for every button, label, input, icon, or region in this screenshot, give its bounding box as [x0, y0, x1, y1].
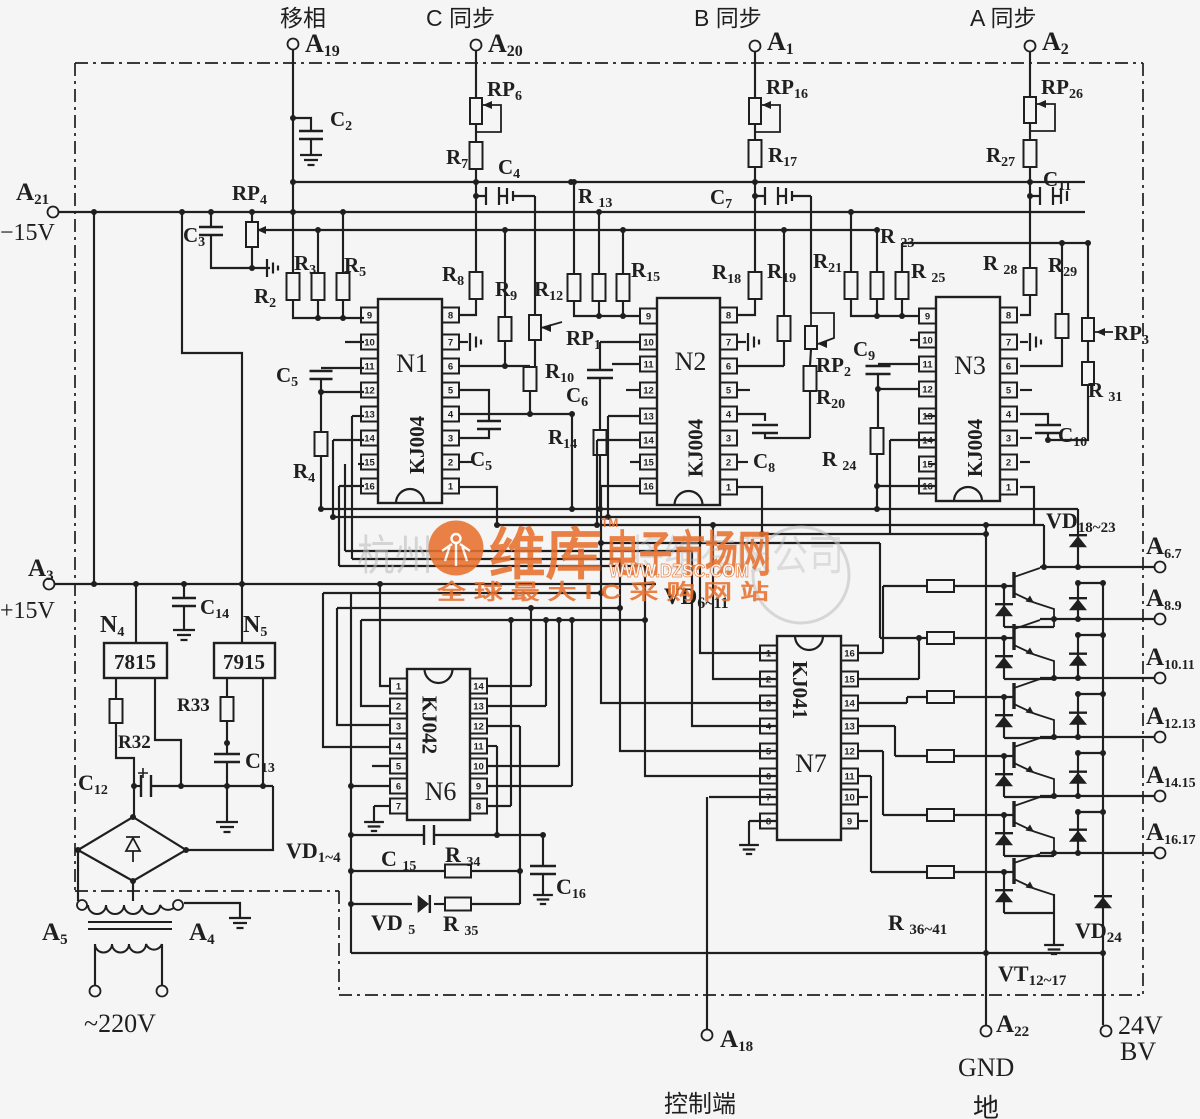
junction	[874, 506, 880, 512]
svg-text:1: 1	[726, 483, 732, 494]
regulator N4 (7815)	[104, 643, 167, 678]
wire bus to R29/RP3	[902, 242, 1088, 244]
wire N2 pin15 stub	[630, 461, 639, 463]
svg-text:11: 11	[473, 742, 484, 753]
svg-text:1: 1	[766, 649, 772, 660]
diode VD19	[1069, 599, 1087, 610]
capacitor C6	[587, 370, 613, 378]
svg-text:C 同步: C 同步	[426, 5, 495, 31]
junction	[1075, 750, 1081, 756]
capacitor C16	[530, 866, 556, 874]
svg-text:5: 5	[726, 386, 732, 397]
junction	[508, 617, 514, 623]
junction	[605, 514, 611, 520]
junction	[1001, 869, 1007, 875]
junction	[249, 209, 255, 215]
wire A3 to 7815	[135, 584, 137, 643]
wire nest bus L9	[323, 592, 601, 594]
resistor R20	[804, 366, 817, 391]
wire output row to A6.7	[1040, 566, 1154, 568]
wire N7 pin10 stub	[859, 796, 868, 798]
wire nest bus L7	[352, 558, 620, 560]
wire output row to A12.13	[1040, 736, 1154, 738]
junction	[75, 847, 81, 853]
wire R5 top	[342, 212, 344, 273]
resistor R27	[1024, 140, 1037, 167]
label C12 polarity	[138, 768, 148, 778]
wire N1 pin7 to ground	[460, 341, 468, 343]
wire top bus 1	[293, 181, 1085, 183]
svg-text:4: 4	[1006, 410, 1012, 421]
transistor VT16	[1012, 801, 1015, 827]
ground at N2 pin7	[748, 333, 759, 351]
wire nest bus L3	[497, 524, 1044, 526]
wire RP1 to R10	[534, 340, 536, 367]
wire R40 to transistor VT16	[954, 814, 1014, 816]
capacitor C3	[199, 227, 223, 235]
svg-text:控制端: 控制端	[664, 1091, 736, 1118]
junction	[874, 483, 880, 489]
junction	[290, 209, 296, 215]
junction	[91, 581, 97, 587]
terminal A19	[288, 39, 299, 50]
junction	[178, 783, 184, 789]
junction	[1075, 793, 1081, 799]
junction	[848, 209, 854, 215]
svg-text:8: 8	[476, 802, 481, 813]
junction	[91, 209, 97, 215]
wire N1 pin13	[352, 415, 364, 417]
junction	[527, 411, 533, 417]
svg-text:−15V: −15V	[0, 220, 56, 246]
transformer T secondary winding	[95, 944, 162, 953]
junction	[1027, 179, 1033, 185]
junction	[224, 783, 230, 789]
wire R34 bus left	[351, 870, 445, 872]
wire N7 pin15 to base row 2	[918, 638, 920, 679]
terminal A5 ring	[77, 900, 87, 910]
svg-text:6: 6	[448, 362, 453, 373]
terminal A18	[702, 1030, 713, 1041]
wire nest bus L11	[361, 619, 645, 621]
junction	[315, 315, 321, 321]
capacitor C5	[310, 371, 333, 379]
terminal A2	[1025, 41, 1036, 52]
wire to C6	[599, 342, 601, 370]
svg-text:13: 13	[473, 702, 484, 713]
svg-text:14: 14	[643, 436, 654, 447]
wire N6 pin6	[351, 785, 389, 787]
wire R23 top	[876, 230, 878, 272]
junction	[752, 179, 758, 185]
resistor R41	[927, 866, 954, 878]
svg-text:3: 3	[1006, 434, 1011, 445]
wire base feed row 4	[895, 755, 927, 757]
wire VD9 to emitter rail	[1004, 796, 1054, 798]
junction	[597, 506, 603, 512]
resistor RP1	[529, 315, 541, 340]
svg-text:7: 7	[726, 338, 731, 349]
transformer core	[88, 922, 172, 929]
wire nest to N7 pin2	[713, 525, 777, 679]
resistor R40	[927, 809, 954, 821]
svg-text:杭州: 杭州	[357, 532, 433, 579]
terminal A6.7	[1155, 562, 1166, 573]
svg-text:4: 4	[726, 410, 732, 421]
wire nest drop to output row 1	[1043, 525, 1045, 567]
wire VD22 branch	[1077, 753, 1079, 796]
wire	[317, 300, 319, 318]
wire C16 to ground	[542, 874, 544, 895]
op-amp N1 (KJ004)	[378, 299, 442, 503]
resistor RP16	[749, 98, 761, 124]
svg-text:BV: BV	[1120, 1037, 1156, 1066]
wire N2 pin12 stub	[626, 389, 639, 391]
wire N2 pin5 stub	[738, 389, 750, 391]
resistor RP6	[470, 98, 482, 124]
wire N1 pin6	[460, 365, 505, 367]
svg-text:11: 11	[364, 362, 375, 373]
wire to C2	[293, 118, 311, 131]
junction	[315, 227, 321, 233]
junction	[348, 832, 354, 838]
wire base feed row 6	[871, 871, 927, 873]
resistor R17	[749, 140, 762, 167]
wire +15V to N6 pin1	[380, 584, 389, 686]
junction	[540, 832, 546, 838]
svg-text:13: 13	[643, 412, 654, 423]
junction	[568, 179, 574, 185]
diode VD23	[1069, 831, 1087, 842]
junction	[494, 832, 500, 838]
svg-text:KJ004: KJ004	[405, 415, 429, 474]
wire	[342, 300, 344, 318]
terminal A14.15	[1155, 791, 1166, 802]
wire RP3 to R31	[1087, 341, 1089, 362]
junction	[1051, 734, 1057, 740]
wire N6 pin14	[487, 685, 531, 687]
ground at output stage	[1044, 945, 1064, 954]
wire R21/R23/R25 bottoms to N3 pin9	[851, 299, 920, 316]
wire N7 pin15	[859, 678, 919, 680]
wire R12/R13/R15 bottoms to N2 pin9	[574, 301, 639, 316]
wire output row to A14.15	[1040, 795, 1154, 797]
wire N7 pin8 to ground	[748, 821, 750, 845]
wire base feed row 2	[880, 637, 927, 639]
capacitor C15	[424, 825, 434, 845]
wire R12 top	[573, 182, 575, 274]
junction	[1051, 793, 1057, 799]
wire C15 bus left	[351, 834, 424, 836]
diode VD10	[995, 834, 1013, 845]
wire output row to A16.17	[1040, 852, 1154, 854]
diode VD22	[1069, 773, 1087, 784]
wire nest to N6 pin3	[337, 608, 389, 725]
wire N7 pin11	[859, 775, 871, 777]
wire nest bus L4	[762, 533, 986, 535]
border frame (dash-dot)	[75, 63, 1143, 995]
junction	[348, 901, 354, 907]
wire C15 bus right	[434, 834, 543, 836]
junction	[1045, 437, 1051, 443]
junction	[348, 868, 354, 874]
wire VD5 to R35	[434, 903, 445, 905]
svg-text:8: 8	[448, 311, 453, 322]
wire diode VD7 branch	[1003, 638, 1005, 679]
wire VD6 to emitter rail	[1004, 626, 1054, 628]
wire N6 pin7	[374, 805, 389, 807]
bridge rectifier VD1~4	[78, 817, 186, 881]
wire R28 to N3 pin8	[1020, 295, 1030, 315]
wire bus to bridge top	[133, 786, 135, 817]
junction	[1001, 753, 1007, 759]
resistor R12	[568, 274, 581, 301]
svg-text:10: 10	[364, 338, 375, 349]
wire	[1029, 167, 1031, 268]
svg-text:~220V: ~220V	[84, 1009, 156, 1038]
wire to nest	[600, 486, 602, 557]
resistor R37	[927, 632, 954, 644]
terminal A22	[981, 1026, 992, 1037]
wire N3 pin16	[877, 485, 936, 487]
junction	[1085, 240, 1091, 246]
resistor R25	[896, 272, 909, 299]
junction	[642, 617, 648, 623]
capacitor C11	[1031, 187, 1067, 205]
wire N1 pin10	[345, 341, 364, 343]
junction	[1100, 691, 1106, 697]
wire VD10 to emitter rail	[1004, 855, 1054, 857]
svg-text:N7: N7	[795, 749, 827, 778]
wire R25 top	[901, 243, 903, 272]
wire nest drop to base row 2	[879, 543, 881, 638]
resistor RP4	[246, 222, 258, 247]
svg-text:7: 7	[396, 802, 401, 813]
junction	[1051, 675, 1057, 681]
svg-text:9: 9	[476, 782, 481, 793]
junction	[1075, 675, 1081, 681]
wire clamp to 24V rail	[1078, 752, 1103, 754]
wire	[754, 124, 756, 140]
wire top bus 2 (from RP4 wiper)	[257, 229, 877, 231]
regulator N5 (7915)	[214, 643, 275, 678]
wire to ground	[226, 786, 228, 822]
svg-text:全 球 最 大 I C 采 购 网 站: 全 球 最 大 I C 采 购 网 站	[436, 580, 769, 604]
svg-text:6: 6	[1006, 362, 1011, 373]
svg-text:10: 10	[473, 762, 484, 773]
wire N1 pin11 to C5	[321, 367, 364, 369]
wire C2 to ground	[310, 139, 312, 155]
wire +15V bus	[55, 583, 656, 585]
capacitor C10	[1035, 425, 1061, 433]
wire diode VD6 branch	[1003, 586, 1005, 627]
diode VD6	[995, 605, 1013, 616]
junction	[340, 315, 346, 321]
wire secondary right leg	[161, 944, 163, 986]
junction	[330, 514, 336, 520]
resistor R29	[1056, 314, 1069, 338]
svg-text:KJ004: KJ004	[684, 418, 708, 477]
wire C3 top	[210, 212, 212, 227]
resistor R32	[110, 699, 123, 723]
resistor R9	[499, 317, 512, 341]
wire R33 to C13	[226, 721, 228, 754]
wire R2/R3/R5 bottoms to N1 pin9	[293, 300, 364, 318]
junction	[781, 227, 787, 233]
wire N2 pin11	[612, 363, 639, 365]
wire A18	[706, 797, 708, 1030]
svg-text:12: 12	[473, 722, 484, 733]
terminal A20	[471, 40, 482, 51]
junction	[983, 531, 989, 537]
capacitor C4	[477, 187, 513, 205]
junction	[598, 540, 604, 546]
wire diode VD8 branch	[1003, 697, 1005, 738]
junction	[1075, 850, 1081, 856]
junction	[1075, 632, 1081, 638]
resistor R15	[617, 274, 630, 301]
junction	[1100, 632, 1106, 638]
watermark	[357, 527, 849, 623]
wire to R4	[320, 392, 322, 432]
svg-text:2: 2	[726, 458, 731, 469]
junction	[752, 193, 758, 199]
transistor VT17	[1012, 858, 1015, 884]
svg-text:6: 6	[726, 362, 731, 373]
wire R4 bottom to nest	[320, 456, 322, 509]
svg-text:KJ004: KJ004	[963, 418, 987, 477]
wire RP4 top	[251, 212, 253, 222]
wire N6 pin9	[487, 785, 572, 787]
wire nest to N7 pin4	[692, 551, 777, 726]
svg-text:R32: R32	[118, 732, 151, 753]
wire N1 pin5 to C5	[460, 390, 489, 421]
junction	[133, 581, 139, 587]
wire C5 to N1 pin3	[460, 429, 489, 438]
wire clamp to 24V rail	[1078, 634, 1103, 636]
svg-text:N1: N1	[396, 349, 428, 378]
wire R24 bottom to nest	[876, 454, 878, 509]
wire to nest	[889, 440, 891, 534]
wire N3 pin7 to ground	[1020, 341, 1028, 343]
wire R15 top	[622, 230, 624, 274]
ground below C14	[173, 630, 195, 640]
svg-text:地: 地	[973, 1093, 999, 1119]
capacitor C9	[866, 366, 891, 374]
wire N6 pin10 up to nest	[558, 620, 560, 766]
wire A2 to RP26	[1029, 52, 1031, 97]
junction	[1075, 616, 1081, 622]
wire -15V drop to +15V area	[93, 212, 95, 584]
op-amp N3 (KJ004)	[936, 297, 1000, 501]
resistor R35	[445, 898, 471, 911]
wire ground bus	[351, 952, 1103, 954]
wire R8 to N1 pin8	[460, 299, 476, 315]
wire N1 pin15	[358, 463, 364, 465]
svg-text:10: 10	[844, 793, 855, 804]
svg-text:移相: 移相	[280, 5, 326, 31]
svg-text:15: 15	[844, 675, 855, 686]
wire VD7 to emitter rail	[1004, 678, 1054, 680]
junction	[502, 227, 508, 233]
wire nest bus L10	[337, 607, 620, 609]
wire nest to N6 pin4	[323, 593, 389, 747]
svg-text:R33: R33	[177, 695, 210, 716]
diode VD21	[1069, 714, 1087, 725]
wire R9 top	[504, 230, 506, 317]
svg-text:5: 5	[396, 762, 402, 773]
resistor R36	[927, 580, 954, 592]
wire output row to A8.9	[1040, 618, 1154, 620]
wire N2 pin1 to nest	[738, 487, 762, 534]
transistor VT15	[1012, 742, 1015, 768]
wire last emitter to ground	[1053, 894, 1055, 945]
wire C13 bottom to bus	[226, 762, 228, 786]
wire C8 bottom to R20	[765, 433, 810, 438]
wire R36 to transistor VT12	[954, 585, 1014, 587]
svg-text:11: 11	[643, 360, 654, 371]
wire nest to N7 pin6	[645, 566, 777, 776]
wire N2 pin16	[601, 485, 639, 487]
junction	[1059, 240, 1065, 246]
wire N3 pin5 stub	[1020, 389, 1032, 391]
diode VD11	[995, 891, 1013, 902]
wire R29 top	[1061, 243, 1063, 314]
wire nest bus L2	[333, 516, 700, 518]
svg-text:15: 15	[643, 458, 654, 469]
svg-text:3: 3	[726, 434, 731, 445]
svg-text:5: 5	[448, 386, 454, 397]
transformer T primary winding	[88, 905, 176, 914]
wire base feed row 1	[883, 585, 927, 587]
wire R3 top	[317, 230, 319, 273]
terminal A4 ring	[173, 900, 183, 910]
wire N2 pin6	[738, 365, 784, 367]
wire nest to N6 pin2	[361, 620, 389, 706]
junction	[528, 605, 534, 611]
svg-text:3: 3	[766, 699, 771, 710]
wire 7815 to R32	[115, 678, 117, 699]
svg-text:WWW.DZSC.COM: WWW.DZSC.COM	[609, 561, 749, 581]
junction	[598, 590, 604, 596]
wire to nest	[607, 416, 609, 517]
resistor R24	[871, 428, 884, 454]
junction	[130, 878, 136, 884]
wire nest bus L1	[321, 508, 1078, 510]
junction	[249, 265, 255, 271]
wire N6 pin12	[487, 725, 520, 727]
wire R29 bottom to N3 pin6	[1020, 338, 1062, 366]
wire bridge left to transformer	[77, 850, 79, 901]
wire N7 pin16 up to base row 1	[882, 586, 884, 653]
wire C10 bottom	[1047, 433, 1049, 440]
resistor R28	[1024, 268, 1037, 295]
resistor R7	[470, 142, 483, 169]
junction	[473, 179, 479, 185]
capacitor C12	[141, 775, 151, 797]
junction	[290, 115, 296, 121]
wire to C16	[542, 835, 544, 866]
svg-text:14: 14	[364, 434, 375, 445]
resistor R4	[315, 432, 328, 456]
wire 7915 to R33	[226, 678, 228, 697]
terminal A10.11	[1155, 673, 1166, 684]
wire clamp to 24V rail	[1078, 811, 1103, 813]
wire N3 pin10 stub	[910, 339, 920, 341]
svg-text:2: 2	[766, 675, 771, 686]
wire bridge right to C12 bus	[186, 786, 273, 850]
wire A19 phase-shift input	[292, 50, 294, 273]
